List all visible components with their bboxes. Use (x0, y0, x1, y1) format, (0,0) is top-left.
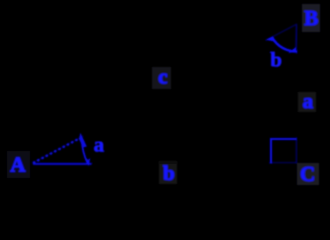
wire: triangle side AC (bottom, black - invisible) (32, 162, 297, 164)
angle mark at A: dotted ray along AB (34, 136, 84, 163)
right-angle square at C: faint bottom edge (270, 162, 297, 164)
label plate behind A (7, 151, 30, 178)
angle mark at B: faint ray along BC (295, 25, 298, 52)
wire: triangle side AB (hypotenuse, black - invisible) (32, 24, 297, 163)
svg-text:C: C (300, 162, 315, 186)
arrowhead at left end of angle arc B (266, 36, 275, 41)
label plate behind B (302, 4, 320, 32)
wire: triangle side BC (right, black - invisible) (296, 24, 298, 163)
arrowhead at top end of angle arc A (79, 133, 87, 148)
svg-text:c: c (158, 64, 167, 88)
angle mark at A: horizontal ray along AC (33, 163, 92, 165)
svg-text:A: A (10, 153, 26, 177)
label plate behind side c (152, 67, 171, 89)
right-angle square at C: faint right edge (295, 138, 297, 164)
svg-text:a: a (94, 132, 105, 156)
svg-text:b: b (270, 48, 282, 72)
right-angle square at C: left edge (270, 138, 272, 164)
svg-text:b: b (163, 161, 175, 185)
label plate behind side a (298, 92, 316, 112)
angle arc at A (82, 138, 88, 164)
label plate behind side b (159, 161, 177, 184)
svg-text:B: B (304, 6, 318, 30)
label plate behind C (297, 163, 319, 185)
svg-text:a: a (303, 89, 314, 113)
arrowhead at bottom end of angle arc A (86, 158, 90, 167)
angle arc at B (272, 38, 297, 52)
arrowhead at right end of angle arc B (288, 47, 296, 53)
right-angle square at C: top edge (270, 138, 297, 140)
angle mark at B: faint ray along BA (266, 24, 297, 40)
